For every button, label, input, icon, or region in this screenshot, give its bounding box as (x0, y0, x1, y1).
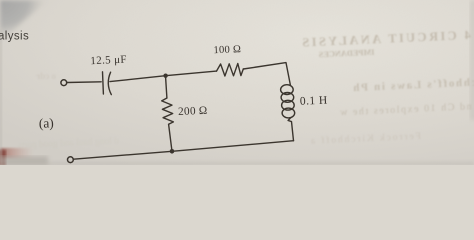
svg-text:0.1 H: 0.1 H (300, 94, 329, 108)
svg-text:100 Ω: 100 Ω (213, 44, 241, 56)
svg-text:12.5 μF: 12.5 μF (90, 54, 127, 68)
svg-text:o cdr: o cdr (36, 71, 56, 81)
svg-text:alysis: alysis (0, 30, 29, 42)
svg-text:200 Ω: 200 Ω (178, 105, 208, 118)
svg-text:(a): (a) (39, 115, 54, 131)
